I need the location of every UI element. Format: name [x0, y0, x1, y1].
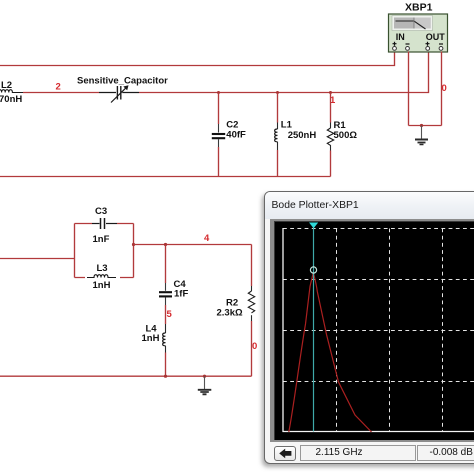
svg-text:500Ω: 500Ω [334, 130, 358, 141]
capacitor C2 branch [212, 93, 225, 177]
Bode Plotter window [264, 191, 474, 464]
junction dot node2/C2 [217, 91, 220, 94]
plot grid dashed horizontals [283, 228, 474, 381]
window title text [272, 200, 359, 211]
junction dot at ground tie [420, 124, 423, 127]
window title bar [265, 192, 474, 219]
wire: bottom rail of upper tank [0, 176, 331, 178]
svg-text:2: 2 [56, 82, 61, 93]
svg-text:5: 5 [167, 309, 173, 320]
svg-text:0: 0 [442, 83, 447, 94]
svg-text:C3: C3 [95, 206, 107, 217]
plot grid dashed verticals [336, 228, 442, 431]
magnitude readout text [430, 447, 473, 458]
inductor L3 (on bottom edge) [87, 275, 116, 278]
plot axis left [282, 228, 284, 432]
variable capacitor Sensitive_Capacitor [99, 85, 139, 102]
magnitude response curve [288, 272, 371, 432]
svg-text:1nH: 1nH [93, 280, 111, 291]
svg-text:4: 4 [204, 233, 210, 244]
XBP1 pin terminals [393, 47, 443, 51]
wire: node 4 rail [134, 244, 252, 246]
svg-text:0: 0 [252, 341, 257, 352]
svg-text:1nF: 1nF [93, 234, 110, 245]
wire: lower bottom rail [0, 375, 252, 377]
svg-text:1nH: 1nH [142, 333, 160, 344]
svg-text:OUT: OUT [426, 32, 446, 42]
inductor L1 branch [275, 93, 278, 177]
status readout field right [417, 445, 474, 461]
capacitor C4 branch [159, 245, 172, 325]
svg-text:Sensitive_Capacitor: Sensitive_Capacitor [77, 76, 168, 87]
ground symbol (upper) [415, 126, 428, 145]
wire connecting IN- and OUT- [409, 125, 442, 127]
resistor R2 branch [248, 245, 254, 377]
cursor vertical line [312, 225, 314, 432]
svg-text:40fF: 40fF [226, 130, 246, 141]
plot display area [270, 219, 474, 442]
svg-text:IN: IN [396, 32, 405, 42]
junction dot rail/ground [203, 375, 206, 378]
junction dot node4/C4 [164, 243, 167, 246]
wire: input to lower tank [0, 258, 75, 260]
wire: top rail from IN+ of XBP1 to left edge [0, 52, 395, 66]
frequency readout text [316, 447, 363, 458]
capacitor C3 (on top edge) [92, 218, 117, 229]
ground symbol (lower) [198, 376, 212, 394]
inductor L4 branch [163, 324, 166, 376]
svg-text:XBP1: XBP1 [405, 2, 433, 14]
junction dot rail/L4 [164, 375, 167, 378]
inductor L2 (cut at left edge) [0, 90, 23, 93]
svg-text:70nH: 70nH [0, 94, 22, 105]
plot axis bottom [282, 430, 474, 432]
wire IN- down [408, 52, 410, 126]
junction dot: box output [132, 243, 135, 246]
wire: node 2 rail (red portions) [23, 52, 429, 93]
cursor handle triangle [309, 222, 318, 228]
svg-text:L1: L1 [281, 120, 293, 131]
svg-text:2.3kΩ: 2.3kΩ [217, 308, 243, 319]
wire: C3/L3 loop box [75, 224, 134, 278]
resistor R1 branch [327, 93, 333, 177]
junction dot node2/L1 [276, 91, 279, 94]
svg-text:L3: L3 [97, 263, 108, 274]
back arrow button [274, 446, 296, 461]
svg-text:250nH: 250nH [288, 130, 317, 141]
cursor point marker [310, 266, 316, 272]
junction dot node2/R1 [329, 91, 332, 94]
status readout field left [300, 445, 416, 461]
XBP1 pin polarity marks [393, 42, 444, 46]
instrument XBP1 body [389, 14, 448, 52]
wire OUT- down [441, 52, 443, 126]
svg-text:L2: L2 [1, 80, 12, 91]
svg-text:1fF: 1fF [174, 289, 188, 300]
